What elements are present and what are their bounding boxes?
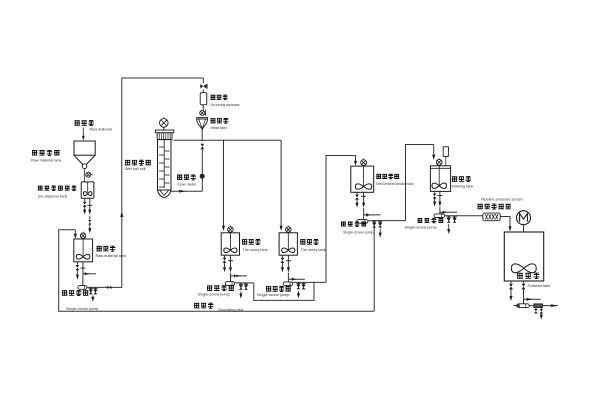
svg-text:Wet ball mill: Wet ball mill (125, 167, 146, 171)
svg-text:pre-disperse tank: pre-disperse tank (38, 195, 67, 199)
svg-text:Semi-finished product tank: Semi-finished product tank (376, 182, 414, 186)
svg-text:Single-screw pump: Single-screw pump (343, 230, 374, 234)
svg-text:Single-screw pump: Single-screw pump (257, 293, 289, 297)
svg-text:The slurry tank: The slurry tank (301, 248, 326, 252)
svg-text:Pipeline pressure screen: Pipeline pressure screen (481, 197, 523, 201)
svg-text:The slurry tank: The slurry tank (243, 248, 268, 252)
svg-text:Raw material tank: Raw material tank (96, 254, 126, 258)
svg-text:Single-screw pump: Single-screw pump (405, 226, 437, 230)
svg-text:Raw material: Raw material (90, 128, 112, 132)
svg-text:Circulating pipe: Circulating pipe (218, 308, 244, 312)
svg-text:Raw material tank: Raw material tank (31, 158, 61, 162)
svg-text:De-ironing separator: De-ironing separator (211, 103, 241, 107)
svg-text:Finished tank: Finished tank (528, 284, 551, 288)
svg-text:Single-screw pump: Single-screw pump (198, 293, 230, 297)
svg-text:Single-screw pump: Single-screw pump (66, 307, 98, 311)
svg-text:Head tank: Head tank (211, 126, 228, 130)
svg-text:Filleting tank: Filleting tank (452, 184, 473, 188)
svg-text:Flow meter: Flow meter (178, 183, 198, 187)
